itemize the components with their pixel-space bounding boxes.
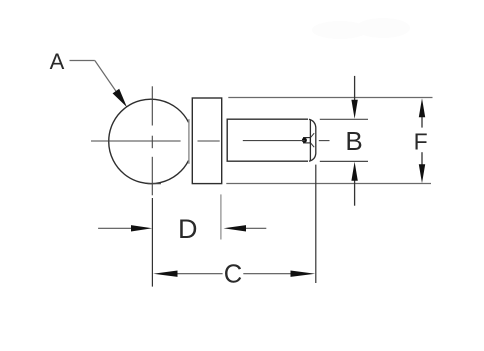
svg-text:A: A — [50, 49, 65, 74]
svg-text:F: F — [414, 129, 428, 155]
F bottom extension line — [226, 183, 431, 185]
D right extension line — [220, 194, 222, 239]
D dimension left arrow — [98, 225, 152, 231]
center drill slot at shank end — [302, 133, 314, 147]
collar rectangle — [192, 98, 221, 184]
vertical centerline of ball — [151, 86, 153, 195]
svg-text:C: C — [224, 261, 242, 289]
centerline tick at ball bottom — [148, 183, 162, 185]
B lower dimension arrow — [351, 162, 357, 206]
ball flat interface line — [188, 119, 190, 164]
horizontal centerline — [91, 140, 330, 142]
F top extension line — [228, 97, 432, 99]
shank end chamfer line — [309, 120, 311, 162]
F dimension upper arrow — [419, 98, 425, 127]
leader arrowhead for A — [113, 89, 127, 107]
F dimension lower arrow — [419, 152, 425, 183]
faint scan smudge — [312, 18, 410, 39]
shank end cap outline — [309, 119, 316, 161]
D dimension right arrow — [224, 225, 267, 231]
ball outline (sphere A) — [109, 99, 189, 183]
shank top extension line (B) — [320, 118, 368, 120]
B upper dimension arrow — [351, 76, 357, 119]
svg-text:B: B — [345, 126, 362, 156]
C left extension line (ball centerline extended) — [151, 198, 153, 287]
leader line for A — [70, 61, 117, 93]
shank body — [227, 119, 308, 161]
C dimension line with arrows — [153, 271, 315, 277]
shank bottom extension line (B) — [320, 160, 368, 162]
svg-text:D: D — [178, 214, 198, 244]
C right extension line (shank end) — [315, 165, 317, 283]
